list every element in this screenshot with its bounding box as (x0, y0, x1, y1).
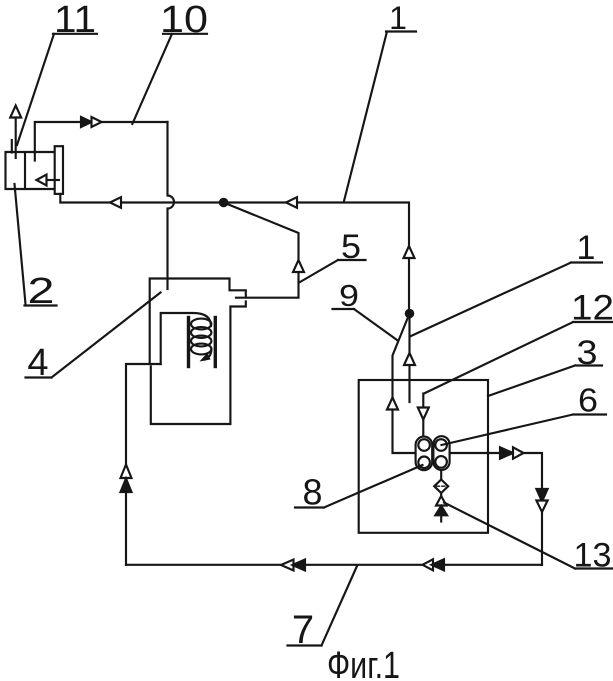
arrow on branch pipe 5 (open, up) (293, 260, 304, 272)
leader line 9 (333, 309, 398, 340)
svg-text:12: 12 (571, 289, 613, 328)
heating coil turn 2 (191, 327, 211, 338)
return arrow into separator (open, left) (37, 175, 59, 186)
svg-text:9: 9 (339, 278, 359, 313)
leader line 1 top (344, 32, 416, 202)
injector line 12 lower stub (422, 420, 424, 438)
svg-text:3: 3 (577, 334, 598, 372)
svg-text:4: 4 (27, 342, 48, 384)
leader line 6 (442, 415, 607, 446)
electrode bar left (187, 318, 190, 367)
heating coil turn 4 (191, 344, 211, 355)
leader line 10 (132, 34, 207, 124)
leader line 12 (424, 322, 612, 394)
leader line 7 (288, 566, 358, 646)
center stub pipe 9 (408, 314, 410, 403)
rotor circle top-right (435, 439, 447, 451)
pump right cylinder (433, 436, 449, 470)
injector arrow (open, down) (418, 408, 429, 420)
junction node A (219, 198, 229, 208)
leader line 2 (15, 184, 57, 306)
arrow on discharge (open, right) (513, 447, 524, 458)
svg-text:10: 10 (160, 0, 208, 41)
pipe 10 (separator feed line) (35, 122, 168, 161)
arrow on main pipe (open, left, mid) (286, 197, 297, 208)
leader line 4 (26, 293, 161, 378)
arrow on main pipe (open, left, near separator) (110, 197, 121, 208)
separator 2 outlet header (thin rectangle) (55, 146, 63, 194)
leader line 8 (295, 465, 423, 508)
svg-text:1: 1 (577, 229, 596, 267)
check valve diamond (434, 470, 448, 496)
vent arrow (open, up) (10, 106, 21, 118)
heater 4 shell lower part (151, 302, 246, 425)
svg-text:Фиг.1: Фиг.1 (327, 645, 400, 681)
arrow set on pipe 7 right (open, left) (423, 559, 434, 570)
leader line 1 right (411, 263, 602, 337)
suction branch to pump (393, 314, 416, 454)
branch pipe 5 to heater (224, 203, 299, 298)
arrow on riser 1 (open, up) (404, 246, 415, 258)
arrow on discharge (filled, right) (500, 447, 513, 458)
arrow on downpipe (open, down) (536, 501, 547, 513)
heating coil turn 3 (191, 336, 211, 347)
electrode bar right (214, 318, 217, 367)
rotor circle top-left (418, 439, 430, 451)
svg-text:13: 13 (574, 537, 612, 575)
coil outlet curve and arrow (200, 349, 212, 362)
arrow set on pipe 7 right (filled, left) (432, 559, 445, 570)
throttle triangle (open, up) (436, 496, 446, 506)
rotor circle bottom-right (435, 456, 447, 468)
arrow on center stub (open, up) (404, 353, 415, 365)
inlet arrow 13 (filled, up) (435, 506, 447, 522)
left riser pipe (126, 364, 161, 565)
svg-text:8: 8 (302, 472, 322, 513)
arrow on left riser (open, up) (121, 465, 132, 479)
svg-text:6: 6 (578, 382, 598, 419)
arrow set on pipe 7 left (open, left) (281, 560, 294, 571)
leader line 5 (299, 260, 365, 283)
discharge pipe 6 (450, 453, 542, 565)
pump left cylinder (416, 437, 433, 471)
flow arrow on pipe 10 (filled, right) (81, 117, 92, 127)
heater inner chamber (161, 313, 211, 364)
box 3 (pump unit enclosure) (359, 380, 488, 533)
arrow on suction branch (open, up) (387, 398, 398, 410)
leader line 11 (17, 34, 97, 145)
arrow set on pipe 7 left (filled, left) (293, 560, 306, 571)
leader line 3 (488, 366, 602, 397)
vent line (15, 118, 17, 159)
arrow on left riser (filled, up) (121, 479, 132, 493)
svg-text:11: 11 (54, 0, 96, 41)
flow arrow on pipe 10 (open, right) (92, 117, 102, 127)
separator vessel 2 body (6, 152, 55, 189)
svg-text:2: 2 (28, 270, 55, 311)
bottom return pipe 7 (126, 564, 542, 566)
heating coil turn 1 (191, 319, 211, 330)
downcomer pipe with crossover hop (168, 122, 175, 289)
vent pipe stub (11, 140, 13, 153)
rotor circle bottom-left (418, 457, 430, 469)
junction node B (405, 309, 415, 319)
leader line 13 (444, 503, 613, 569)
injector line 12 upper stub (422, 394, 424, 408)
svg-text:5: 5 (341, 228, 361, 266)
heater 4 shell upper part (150, 279, 246, 363)
svg-text:1: 1 (389, 0, 407, 36)
arrow on downpipe (filled, down) (536, 489, 547, 502)
svg-text:7: 7 (292, 608, 314, 652)
main return pipe 1 (60, 194, 409, 314)
